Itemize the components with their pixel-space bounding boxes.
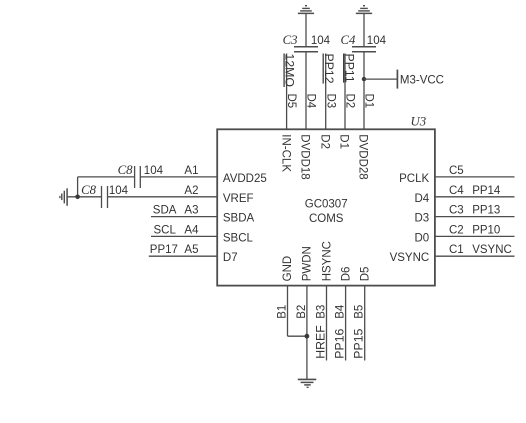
net label PP16 (rotated, underlined) xyxy=(333,328,347,358)
pin number D2 (top, rotated) xyxy=(344,94,356,109)
capacitor C8 (upper) plates xyxy=(135,166,141,188)
pin number A1 xyxy=(184,165,198,177)
svg-text:D3: D3 xyxy=(324,94,336,109)
svg-text:D2: D2 xyxy=(318,134,330,149)
wire bottom pin B2 (PWDN) vertical to ground xyxy=(306,286,308,379)
refdes C8 (lower) xyxy=(81,183,97,197)
wire pin A1 left segment xyxy=(78,176,135,178)
svg-text:PP15: PP15 xyxy=(352,328,366,358)
svg-text:M3-VCC: M3-VCC xyxy=(400,74,444,86)
wire top pin D5 (IN-CLK) with 12MO net underline xyxy=(286,54,288,130)
wire pin C2 row xyxy=(435,235,515,237)
net label SDA xyxy=(153,205,177,217)
pin name VSYNC xyxy=(390,252,430,264)
pin name SBCL xyxy=(223,232,254,244)
wire bottom pin B1 (GND) vertical xyxy=(287,286,289,337)
pin name VREF xyxy=(223,193,254,205)
wire top pin D1 (DVDD28) below C4 xyxy=(363,52,365,130)
svg-text:GC0307: GC0307 xyxy=(305,198,348,210)
pin number B5 (rotated) xyxy=(354,305,366,319)
wire bottom pin B5 (D5) with PP15 net underline xyxy=(364,286,366,361)
junction dot M3-VCC tap xyxy=(362,77,366,81)
svg-text:C4: C4 xyxy=(340,33,356,47)
svg-text:104: 104 xyxy=(367,35,387,47)
IC label COMS xyxy=(309,213,344,225)
pin number D5 (top, rotated) xyxy=(285,94,297,109)
pin name D5 (rotated) xyxy=(360,267,372,282)
pin name GND (rotated) xyxy=(282,256,294,282)
pin name PWDN (rotated) xyxy=(302,246,314,281)
svg-text:D7: D7 xyxy=(223,252,238,264)
capacitor C4 plates xyxy=(352,47,376,52)
pin name PCLK xyxy=(399,173,429,185)
svg-text:A4: A4 xyxy=(184,224,199,236)
svg-text:HREF: HREF xyxy=(313,325,327,359)
svg-text:A3: A3 xyxy=(184,205,198,217)
ground (inverted, above C3) xyxy=(298,6,314,14)
refdes C4 xyxy=(340,33,356,47)
svg-text:C8: C8 xyxy=(118,163,134,177)
svg-text:D1: D1 xyxy=(338,134,350,149)
wire top pin D1 above C4 xyxy=(363,13,365,47)
pin name D1 (rotated) xyxy=(338,134,350,149)
net label PP15 (rotated, underlined) xyxy=(352,328,366,358)
refdes C8 (upper) xyxy=(118,163,134,177)
net label 12MO (rotated, underlined) xyxy=(283,54,297,88)
IC U3 body xyxy=(217,129,435,285)
wire bottom pin B3 (HSYNC) with HREF net underline xyxy=(326,286,328,361)
capacitor C3 plates xyxy=(294,47,318,52)
ground (bottom earth) xyxy=(298,379,317,387)
svg-text:12MO: 12MO xyxy=(283,54,297,88)
svg-text:104: 104 xyxy=(311,35,331,47)
svg-text:GND: GND xyxy=(282,256,294,282)
pin name IN-CLK (rotated) xyxy=(279,134,291,172)
wire pin C4 row xyxy=(435,196,515,198)
svg-text:B1: B1 xyxy=(276,305,288,319)
wire pin A3 xyxy=(151,216,217,218)
svg-text:PP14: PP14 xyxy=(472,185,501,197)
net label VSYNC (right) xyxy=(472,244,512,256)
pin number C3 xyxy=(449,205,464,217)
net label HREF (rotated, underlined) xyxy=(313,325,327,359)
value 104 (lower C8) xyxy=(109,185,129,197)
pin number C1 xyxy=(449,244,464,256)
svg-text:PCLK: PCLK xyxy=(399,173,429,185)
pin name D3 xyxy=(414,213,429,225)
svg-text:C5: C5 xyxy=(449,165,464,177)
svg-text:PWDN: PWDN xyxy=(302,246,314,281)
svg-text:SCL: SCL xyxy=(154,224,177,236)
pin name D0 xyxy=(414,232,429,244)
svg-text:COMS: COMS xyxy=(309,213,344,225)
pin number A3 xyxy=(184,205,198,217)
pin name DVDD28 (rotated) xyxy=(357,134,369,179)
svg-text:U3: U3 xyxy=(411,114,427,128)
svg-text:DVDD18: DVDD18 xyxy=(299,134,311,179)
svg-text:D2: D2 xyxy=(344,94,356,109)
wire pin A5 xyxy=(149,255,217,257)
svg-text:PP17: PP17 xyxy=(150,244,178,256)
wire pin C5 row xyxy=(435,176,515,178)
svg-text:SDA: SDA xyxy=(153,205,177,217)
svg-text:D5: D5 xyxy=(360,267,372,282)
pin number D3 (top, rotated) xyxy=(324,94,336,109)
wire pin A1 right segment xyxy=(140,176,217,178)
svg-text:C4: C4 xyxy=(449,185,464,197)
svg-text:A2: A2 xyxy=(184,185,198,197)
svg-text:B2: B2 xyxy=(296,305,308,319)
pin name D7 xyxy=(223,252,238,264)
pin number B1 (rotated) xyxy=(276,305,288,319)
net label PP11 (rotated, underlined) xyxy=(342,54,356,83)
pin name D2 (rotated) xyxy=(318,134,330,149)
svg-text:PP10: PP10 xyxy=(472,224,500,236)
IC part number GC0307 xyxy=(305,198,348,210)
pin number D1 (top, rotated) xyxy=(363,94,375,109)
refdes U3 xyxy=(411,114,427,128)
net label PP17 xyxy=(150,244,178,256)
svg-text:PP13: PP13 xyxy=(472,205,500,217)
pin name HSYNC (rotated) xyxy=(321,241,333,281)
wire top pin D3 (D2) with PP12 net xyxy=(325,54,327,130)
wire pin A2 left segment to ground xyxy=(67,196,102,198)
wire pin A2 right segment xyxy=(108,196,218,198)
svg-text:C8: C8 xyxy=(81,183,97,197)
net label PP14 xyxy=(472,185,501,197)
pin number B4 (rotated) xyxy=(335,304,347,319)
svg-text:B4: B4 xyxy=(335,304,347,319)
svg-text:D5: D5 xyxy=(285,94,297,109)
svg-text:B3: B3 xyxy=(315,305,327,319)
svg-text:104: 104 xyxy=(144,165,164,177)
wire A1 vertical drop to junction xyxy=(77,177,79,197)
net label PP12 (rotated, underlined) xyxy=(322,54,336,84)
ground (inverted, above C4) xyxy=(356,6,372,14)
value 104 (C3) xyxy=(311,35,331,47)
wire top pin D4 above C3 xyxy=(305,13,307,47)
junction dot A1/A2 xyxy=(75,195,80,200)
pin name D6 (rotated) xyxy=(341,267,353,282)
svg-text:D4: D4 xyxy=(305,94,317,109)
svg-text:C1: C1 xyxy=(449,244,464,256)
svg-text:C3: C3 xyxy=(449,205,464,217)
svg-text:IN-CLK: IN-CLK xyxy=(279,134,291,172)
svg-text:PP11: PP11 xyxy=(342,54,356,83)
svg-text:PP12: PP12 xyxy=(322,54,336,84)
svg-text:HSYNC: HSYNC xyxy=(321,241,333,281)
pin number A5 xyxy=(184,244,198,256)
wire pin C3 row xyxy=(435,216,515,218)
refdes C3 xyxy=(283,33,298,47)
pin number A2 xyxy=(184,185,198,197)
svg-text:A5: A5 xyxy=(184,244,198,256)
svg-text:D0: D0 xyxy=(414,232,429,244)
net label SCL xyxy=(154,224,177,236)
pin number C5 xyxy=(449,165,464,177)
svg-text:B5: B5 xyxy=(354,305,366,319)
svg-text:PP16: PP16 xyxy=(333,328,347,358)
value 104 (upper C8) xyxy=(144,165,164,177)
capacitor C8 (lower) plates xyxy=(102,186,108,208)
value 104 (C4) xyxy=(367,35,387,47)
wire top pin D4 (DVDD18) below C3 xyxy=(305,52,307,130)
pin number B2 (rotated) xyxy=(296,305,308,319)
power net label M3-VCC xyxy=(400,74,444,86)
pin number D4 (top, rotated) xyxy=(305,94,317,109)
svg-text:D3: D3 xyxy=(414,213,429,225)
svg-text:D6: D6 xyxy=(341,267,353,282)
wire pin C1 row xyxy=(435,255,515,257)
svg-text:SBCL: SBCL xyxy=(223,232,254,244)
pin number A4 xyxy=(184,224,199,236)
svg-text:VSYNC: VSYNC xyxy=(472,244,512,256)
net label PP10 xyxy=(472,224,500,236)
svg-text:DVDD28: DVDD28 xyxy=(357,134,369,179)
pin name SBDA xyxy=(223,213,255,225)
net label PP13 xyxy=(472,205,500,217)
pin number B3 (rotated) xyxy=(315,305,327,319)
wire top pin D2 (D1) with PP11 net xyxy=(344,54,346,130)
svg-text:AVDD25: AVDD25 xyxy=(223,173,267,185)
wire pin A4 xyxy=(151,235,217,237)
wire B1 elbow to B2 xyxy=(288,335,307,337)
svg-text:C2: C2 xyxy=(449,224,464,236)
junction dot B1/B2 xyxy=(305,334,310,339)
svg-text:D1: D1 xyxy=(363,94,375,109)
power port bar M3-VCC xyxy=(396,70,398,89)
svg-text:D4: D4 xyxy=(414,193,429,205)
svg-text:104: 104 xyxy=(109,185,129,197)
pin number C4 xyxy=(449,185,464,197)
svg-text:VSYNC: VSYNC xyxy=(390,252,430,264)
wire bottom pin B4 (D6) with PP16 net underline xyxy=(345,286,347,361)
svg-text:A1: A1 xyxy=(184,165,198,177)
pin name AVDD25 xyxy=(223,173,267,185)
svg-text:SBDA: SBDA xyxy=(223,213,255,225)
svg-text:VREF: VREF xyxy=(223,193,254,205)
pin name D4 xyxy=(414,193,429,205)
ground (left, sideways earth) xyxy=(60,188,67,206)
pin number C2 xyxy=(449,224,464,236)
wire to M3-VCC port xyxy=(364,78,397,80)
pin name DVDD18 (rotated) xyxy=(299,134,311,179)
svg-text:C3: C3 xyxy=(283,33,298,47)
